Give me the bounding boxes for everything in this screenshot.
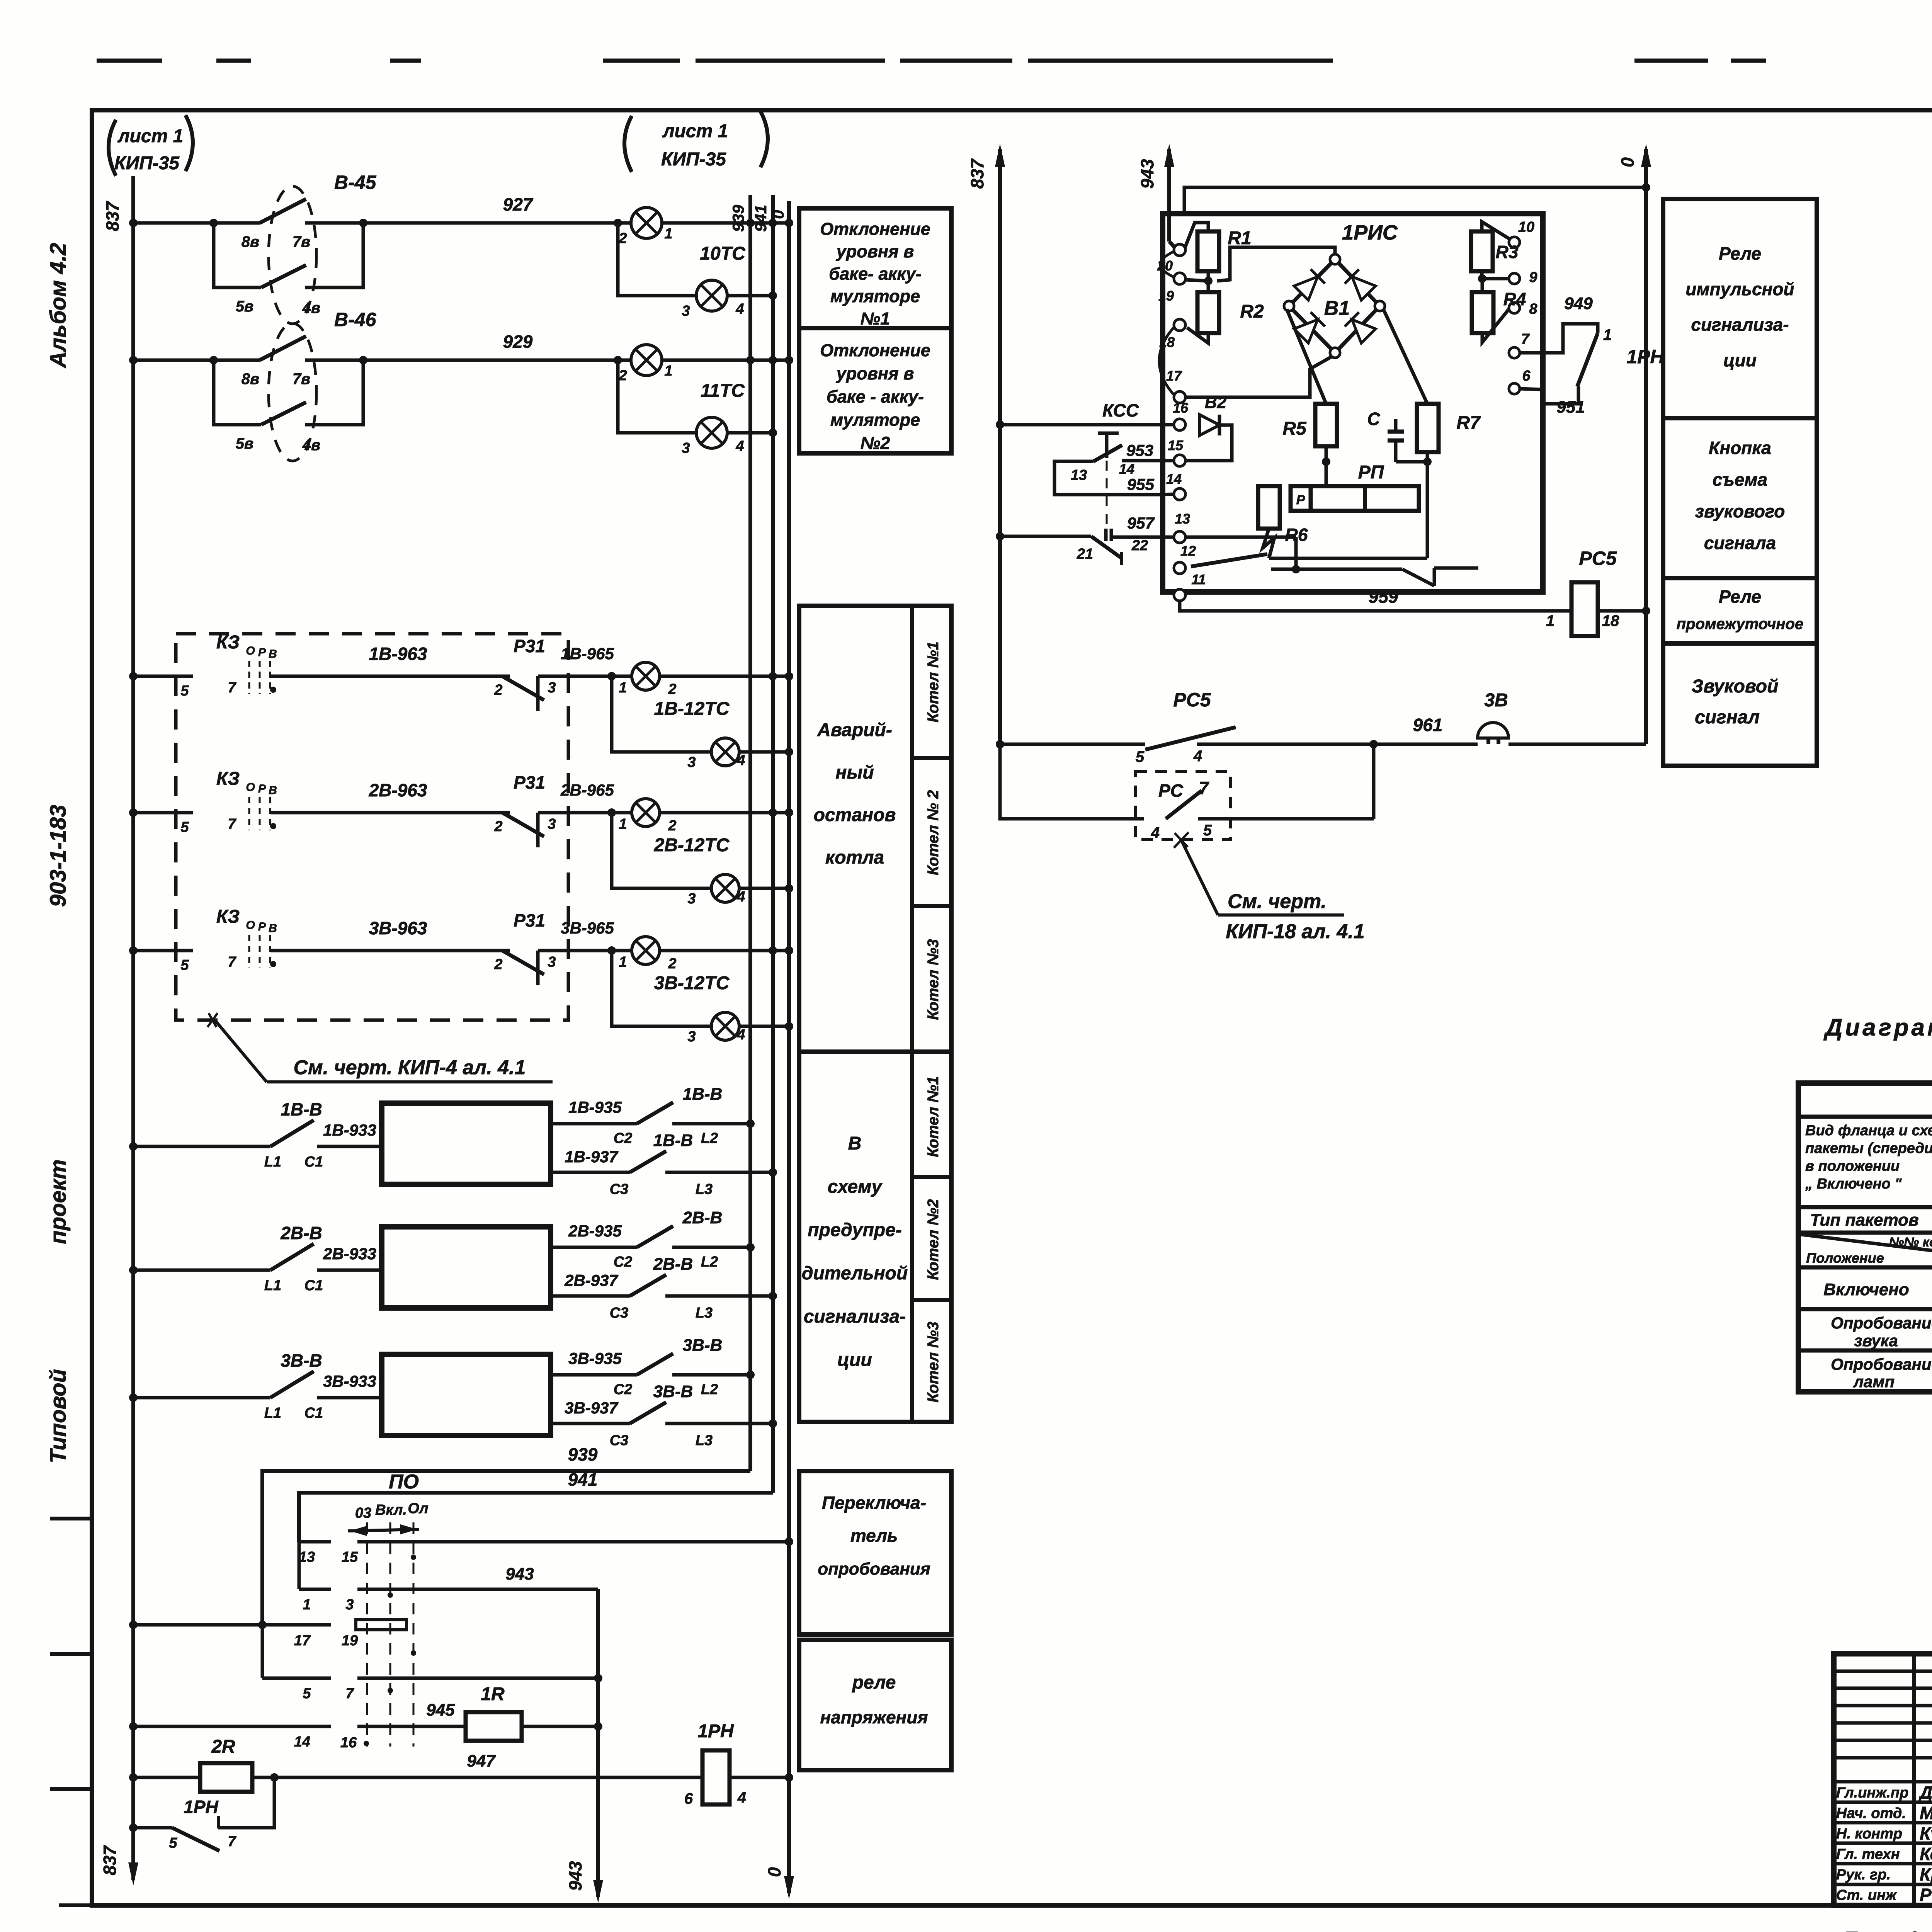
svg-text:Альбом 4.2: Альбом 4.2 — [46, 243, 71, 368]
svg-text:R2: R2 — [1240, 301, 1264, 322]
svg-text:РС5: РС5 — [1173, 689, 1211, 711]
svg-text:2: 2 — [668, 956, 676, 972]
svg-text:„ Включено ": „ Включено " — [1805, 1176, 1902, 1192]
svg-text:См. черт.: См. черт. — [1228, 890, 1327, 913]
svg-text:3: 3 — [682, 303, 690, 319]
relay coil 1РН — [684, 1721, 793, 1807]
svg-text:Вкл.: Вкл. — [375, 1502, 407, 1518]
svg-text:С3: С3 — [610, 1181, 629, 1197]
svg-text:В: В — [269, 922, 277, 935]
svg-text:импульсной: импульсной — [1685, 279, 1794, 299]
resistor R3 — [1471, 222, 1519, 279]
svg-text:3В-933: 3В-933 — [323, 1372, 376, 1390]
pin 8 — [1509, 301, 1537, 317]
svg-text:1: 1 — [619, 954, 627, 970]
svg-text:С2: С2 — [614, 1381, 633, 1398]
svg-text:3В-12ТС: 3В-12ТС — [654, 973, 730, 993]
contact 1РН bottom left — [129, 1777, 274, 1851]
wire 941 horizontal — [299, 1469, 773, 1542]
svg-text:в положении: в положении — [1805, 1158, 1900, 1174]
svg-text:С3: С3 — [610, 1432, 629, 1449]
svg-text:5: 5 — [180, 683, 189, 699]
bus 0 left lower with arrow — [764, 1777, 794, 1899]
svg-text:Р31: Р31 — [514, 910, 545, 930]
svg-text:лист 1: лист 1 — [662, 121, 728, 141]
svg-text:останов: останов — [814, 805, 896, 825]
svg-text:22: 22 — [1131, 537, 1148, 554]
contact КЗ 3В — [216, 906, 277, 970]
svg-text:Тип пакетов: Тип пакетов — [1810, 1211, 1918, 1230]
svg-text:5в: 5в — [236, 298, 253, 315]
svg-text:Н. контр: Н. контр — [1836, 1826, 1902, 1842]
row Опробование ламп — [1831, 1354, 1932, 1391]
dashed group box КЗ circuits — [176, 634, 568, 1020]
right legend column — [1663, 199, 1817, 766]
lamp 3В-12ТС bottom — [612, 951, 793, 1045]
svg-text:1РН: 1РН — [697, 1721, 734, 1742]
svg-text:котла: котла — [825, 847, 884, 868]
pin 7 — [1509, 331, 1530, 358]
svg-text:939: 939 — [568, 1444, 598, 1464]
svg-text:Пров. Федорова: Пров. Федорова — [1843, 1928, 1932, 1932]
svg-text:903-1-183: 903-1-183 — [46, 805, 71, 907]
resistor R7 — [1417, 404, 1481, 558]
wire 1В-937 lower output — [551, 1131, 777, 1197]
svg-text:13: 13 — [299, 1549, 315, 1565]
svg-text:15: 15 — [1168, 437, 1184, 453]
pin jumpers left — [1159, 251, 1175, 396]
svg-text:3: 3 — [687, 1029, 696, 1045]
svg-text:1В-12ТС: 1В-12ТС — [654, 699, 730, 719]
note См. черт. КИП-4 — [207, 1013, 553, 1082]
svg-text:1РН: 1РН — [184, 1797, 218, 1817]
svg-text:Думан: Думан — [1918, 1782, 1932, 1803]
switch В-46 — [214, 309, 377, 461]
svg-text:Опробование: Опробование — [1831, 1355, 1932, 1373]
lamp 1В-12ТС bottom — [612, 676, 793, 770]
wire 927 row — [129, 194, 793, 227]
svg-text:С2: С2 — [614, 1254, 633, 1270]
svg-text:11: 11 — [1191, 571, 1206, 587]
switch ПО contact 5-7 — [262, 1625, 602, 1702]
reference label лист 1 КИП-35 left — [109, 115, 193, 176]
contact РЗ1 3В — [494, 910, 632, 985]
svg-text:R5: R5 — [1282, 418, 1307, 439]
svg-text:схему: схему — [828, 1177, 883, 1197]
svg-text:Кушель: Кушель — [1920, 1823, 1932, 1844]
svg-text:Котел №2: Котел №2 — [925, 1199, 942, 1280]
contact 1В-В input — [129, 1099, 382, 1170]
note См. черт. КИП-18 — [1174, 832, 1365, 943]
svg-text:3В-963: 3В-963 — [369, 918, 427, 938]
lamp 10ТС top — [618, 207, 746, 264]
bus 0 left — [769, 201, 789, 1777]
svg-text:16: 16 — [1173, 400, 1189, 416]
svg-text:4: 4 — [736, 889, 745, 905]
svg-text:Гл.инж.пр: Гл.инж.пр — [1836, 1785, 1908, 1801]
svg-text:звукового: звукового — [1695, 501, 1785, 521]
device block 1РИС — [1163, 214, 1543, 592]
svg-text:17: 17 — [1166, 368, 1182, 384]
svg-text:2: 2 — [494, 682, 502, 698]
svg-text:Нач. отд.: Нач. отд. — [1836, 1805, 1906, 1821]
svg-text:955: 955 — [1127, 475, 1155, 493]
switch ПО contact 1-3 — [299, 1542, 598, 1613]
svg-text:L3: L3 — [696, 1181, 713, 1197]
resistor R6 — [1258, 486, 1308, 558]
switch ПО contact 13-15 — [299, 1537, 793, 1565]
switch ПО closed position dots — [364, 1554, 416, 1746]
svg-text:Котел №1: Котел №1 — [925, 1076, 942, 1157]
svg-text:14: 14 — [294, 1734, 310, 1750]
bus 837 right — [967, 144, 1005, 744]
svg-text:3В-965: 3В-965 — [561, 919, 614, 937]
svg-text:5: 5 — [180, 819, 189, 835]
svg-text:Котел №3: Котел №3 — [925, 1321, 942, 1402]
svg-text:Диаграмма работы переключате: Диаграмма работы переключателя опробован… — [1823, 1014, 1932, 1041]
svg-text:4: 4 — [735, 301, 744, 317]
wire top to bus 0 — [1184, 183, 1650, 214]
svg-text:1В-963: 1В-963 — [369, 644, 427, 664]
bus 837 left — [100, 176, 138, 1886]
svg-text:6: 6 — [1522, 368, 1531, 384]
svg-text:№№ контактов: №№ контактов — [1889, 1235, 1932, 1250]
svg-text:957: 957 — [1127, 514, 1155, 532]
lamp 11ТС top — [618, 345, 745, 401]
svg-text:19: 19 — [1158, 288, 1174, 304]
svg-text:С: С — [1367, 409, 1380, 429]
svg-text:3: 3 — [548, 680, 556, 696]
svg-text:Котел №1: Котел №1 — [925, 641, 942, 722]
svg-text:3В-937: 3В-937 — [565, 1399, 618, 1417]
contact КЗ 1В — [216, 632, 277, 696]
svg-text:Опробование: Опробование — [1831, 1314, 1932, 1332]
resistor R1 — [1185, 223, 1252, 281]
svg-text:16: 16 — [340, 1735, 357, 1751]
contact 2В-В input — [129, 1223, 382, 1294]
relay coil РС5 — [1546, 548, 1650, 636]
wire 3В-963 row — [129, 918, 510, 973]
svg-text:4: 4 — [735, 438, 744, 454]
svg-text:2В-В: 2В-В — [653, 1255, 693, 1274]
svg-text:3В: 3В — [1484, 690, 1508, 711]
signature names — [1836, 1782, 1932, 1905]
svg-text:3В-В: 3В-В — [653, 1382, 693, 1401]
svg-text:В1: В1 — [1324, 297, 1350, 320]
legend text Отклонение уровня №1 — [820, 219, 930, 328]
svg-text:7: 7 — [1521, 331, 1530, 347]
footer below frame — [1843, 1924, 1932, 1932]
svg-text:тель: тель — [850, 1526, 898, 1546]
svg-text:13: 13 — [1175, 511, 1190, 527]
bus 0 right — [1617, 144, 1651, 744]
wire bridge right to R7 — [1383, 309, 1427, 404]
svg-text:опробования: опробования — [818, 1560, 930, 1578]
svg-text:2В-В: 2В-В — [280, 1223, 322, 1243]
svg-text:Ол: Ол — [408, 1500, 428, 1517]
svg-text:953: 953 — [1126, 441, 1153, 459]
legend text Отклонение уровня №2 — [820, 340, 930, 453]
pin 9 — [1509, 269, 1537, 286]
svg-text:С2: С2 — [614, 1130, 633, 1146]
capacitor C — [1367, 409, 1427, 462]
svg-text:3: 3 — [687, 754, 696, 770]
svg-text:КИП-35: КИП-35 — [661, 149, 726, 170]
svg-text:19: 19 — [342, 1633, 358, 1649]
legend rotated Котел №1..3 lower — [925, 1076, 942, 1402]
button КСС — [996, 400, 1174, 529]
legend text Аварийный останов котла — [814, 720, 896, 868]
svg-text:КСС: КСС — [1102, 400, 1139, 420]
svg-text:предупре-: предупре- — [808, 1220, 902, 1240]
svg-text:2: 2 — [618, 367, 627, 384]
svg-text:О: О — [246, 645, 255, 657]
svg-text:Мейман: Мейман — [1920, 1803, 1932, 1823]
svg-text:7в: 7в — [293, 233, 310, 250]
svg-text:№1: №1 — [861, 309, 890, 328]
svg-text:Кнопка: Кнопка — [1709, 438, 1771, 458]
contact РЗ1 2В — [494, 772, 632, 847]
wire 3В-937 lower output — [551, 1382, 777, 1449]
svg-text:Р: Р — [258, 920, 266, 933]
svg-text:8в: 8в — [241, 233, 259, 250]
svg-text:1В-В: 1В-В — [281, 1099, 322, 1119]
bus 943 left with arrow — [565, 1589, 603, 1903]
svg-text:0: 0 — [764, 1867, 784, 1877]
svg-text:4: 4 — [737, 1789, 746, 1806]
torn paper edge dashes top — [97, 59, 1932, 63]
svg-text:4: 4 — [1193, 748, 1202, 765]
svg-text:Котел № 2: Котел № 2 — [925, 790, 942, 875]
svg-text:2В-965: 2В-965 — [560, 781, 614, 799]
svg-text:943: 943 — [1137, 159, 1157, 189]
svg-text:Звуковой: Звуковой — [1692, 676, 1779, 697]
contact КЗ 2В — [216, 769, 277, 832]
bus 939 — [729, 195, 750, 1471]
svg-text:РП: РП — [1358, 462, 1384, 483]
svg-text:Р31: Р31 — [514, 772, 545, 793]
svg-text:2В-12ТС: 2В-12ТС — [654, 835, 730, 855]
svg-text:лист 1: лист 1 — [117, 126, 184, 146]
svg-text:R1: R1 — [1228, 228, 1251, 248]
svg-text:1В-В: 1В-В — [683, 1085, 723, 1104]
svg-text:1РН: 1РН — [1626, 346, 1664, 367]
svg-text:0: 0 — [769, 210, 787, 219]
svg-text:пакеты (спереди): пакеты (спереди) — [1805, 1140, 1932, 1156]
svg-text:L2: L2 — [701, 1130, 718, 1146]
svg-text:L1: L1 — [264, 1277, 281, 1294]
svg-text:С1: С1 — [304, 1277, 323, 1294]
functional block 3В-В — [382, 1354, 551, 1435]
svg-text:РС5: РС5 — [1579, 548, 1617, 569]
svg-text:В-46: В-46 — [334, 309, 377, 330]
svg-text:945: 945 — [426, 1701, 455, 1719]
svg-text:Рук. гр.: Рук. гр. — [1836, 1867, 1891, 1883]
relay РП — [1291, 462, 1419, 511]
wire pin17 to bridge bottom — [1185, 356, 1332, 397]
legend text Кнопка съема звукового сигнала — [1695, 438, 1785, 553]
svg-text:7в: 7в — [293, 371, 310, 388]
svg-text:ПО: ПО — [389, 1471, 419, 1493]
svg-text:1В-937: 1В-937 — [565, 1148, 618, 1166]
svg-text:Гл. техн: Гл. техн — [1836, 1846, 1900, 1862]
svg-text:1РИС: 1РИС — [1342, 221, 1398, 244]
svg-text:03: 03 — [355, 1505, 371, 1521]
svg-text:4: 4 — [736, 752, 745, 769]
switch В-45 — [214, 172, 377, 324]
svg-text:КЗ: КЗ — [216, 632, 240, 653]
svg-text:3В-935: 3В-935 — [568, 1349, 622, 1367]
svg-text:1: 1 — [303, 1597, 311, 1613]
svg-text:947: 947 — [467, 1752, 496, 1770]
svg-text:951: 951 — [1556, 398, 1585, 417]
legend text Реле импульсной сигнализации — [1685, 243, 1794, 370]
svg-text:4: 4 — [1151, 824, 1160, 841]
svg-text:2: 2 — [668, 818, 676, 834]
pin 10 — [1509, 219, 1534, 248]
resistor R5 — [1282, 404, 1337, 486]
svg-text:14: 14 — [1166, 471, 1182, 487]
wire 1В-963 row — [129, 644, 510, 699]
svg-text:сигнал: сигнал — [1695, 707, 1760, 728]
svg-text:1: 1 — [1546, 612, 1554, 629]
svg-text:939: 939 — [729, 204, 747, 232]
resistor R4 — [1472, 274, 1526, 342]
margin text Типовой проект 903-1-183 Альбом 4.2 — [46, 243, 71, 1463]
svg-text:ции: ции — [837, 1350, 872, 1370]
svg-text:6: 6 — [684, 1790, 693, 1807]
bus 943 right — [1137, 144, 1175, 248]
svg-text:В: В — [269, 784, 277, 797]
svg-text:941: 941 — [752, 205, 770, 232]
svg-text:1: 1 — [619, 680, 627, 696]
svg-text:уровня в: уровня в — [836, 364, 914, 383]
svg-text:4: 4 — [736, 1027, 745, 1043]
svg-text:Р: Р — [258, 646, 266, 659]
svg-text:7: 7 — [228, 816, 236, 832]
functional block 1В-В — [382, 1103, 551, 1184]
signature table grid — [1834, 1654, 1932, 1905]
svg-text:Аварий-: Аварий- — [817, 720, 892, 740]
svg-text:1: 1 — [1603, 327, 1612, 344]
wire 2В-937 lower output — [551, 1255, 777, 1321]
contact РЗ1 1В — [494, 636, 632, 711]
wire 2В-935 upper output — [551, 1208, 755, 1270]
legend text Звуковой сигнал — [1692, 676, 1779, 728]
svg-text:927: 927 — [503, 194, 534, 214]
resistor R2 — [1185, 277, 1264, 343]
svg-text:сигнала: сигнала — [1704, 533, 1776, 553]
svg-text:18: 18 — [1602, 612, 1619, 629]
svg-text:Типовой: Типовой — [46, 1369, 71, 1463]
svg-text:2: 2 — [618, 230, 627, 247]
svg-text:961: 961 — [1413, 715, 1443, 735]
button contact 13-14 bracket — [1054, 441, 1174, 495]
lamp 2В-12ТС top — [619, 799, 793, 855]
svg-text:3: 3 — [682, 440, 690, 456]
left fold marks — [50, 1519, 92, 1789]
svg-text:1В-965: 1В-965 — [561, 645, 614, 663]
contact 3В-В input — [129, 1350, 382, 1421]
bus 941 — [752, 195, 773, 1493]
svg-text:баке- акку-: баке- акку- — [829, 264, 921, 284]
svg-text:1В-В: 1В-В — [653, 1131, 693, 1150]
switch ПО contact 14-16 + resistor 1R — [129, 1684, 602, 1770]
contact pin12 row — [1191, 554, 1478, 586]
svg-text:сигнализа-: сигнализа- — [1691, 315, 1789, 335]
lamp 10ТС bottom — [618, 223, 777, 319]
svg-text:949: 949 — [1564, 294, 1593, 313]
svg-text:В: В — [269, 648, 277, 660]
svg-text:Переключа-: Переключа- — [822, 1493, 926, 1513]
svg-text:уровня в: уровня в — [836, 241, 914, 261]
svg-text:2: 2 — [494, 818, 502, 835]
svg-text:Руттасе: Руттасе — [1920, 1885, 1932, 1905]
diode В2 — [1185, 393, 1232, 461]
svg-text:10: 10 — [1518, 219, 1534, 235]
svg-text:21: 21 — [1077, 546, 1093, 562]
svg-text:14: 14 — [1119, 461, 1134, 477]
title block frame — [1834, 1654, 1932, 1905]
diagram title — [1823, 1014, 1932, 1077]
svg-text:Реле: Реле — [1719, 243, 1761, 264]
svg-text:РС: РС — [1158, 781, 1184, 801]
legend text Реле промежуточное — [1677, 587, 1803, 633]
svg-text:муляторе: муляторе — [830, 286, 920, 306]
junction branch dot 3В row — [607, 946, 616, 955]
svg-text:12: 12 — [1180, 543, 1196, 559]
svg-text:КЗ: КЗ — [216, 906, 240, 927]
svg-text:5: 5 — [180, 957, 189, 973]
svg-text:См. черт. КИП-4 ал. 4.1: См. черт. КИП-4 ал. 4.1 — [294, 1056, 526, 1079]
svg-text:8: 8 — [1529, 301, 1537, 317]
svg-text:10ТС: 10ТС — [700, 243, 746, 264]
svg-text:1R: 1R — [481, 1684, 505, 1704]
svg-text:ный: ный — [835, 762, 874, 783]
contact РС5 with wire 961 — [996, 689, 1478, 765]
row Опробование звука — [1831, 1313, 1932, 1350]
svg-text:9: 9 — [1529, 269, 1537, 286]
svg-text:1: 1 — [664, 363, 672, 379]
svg-text:1: 1 — [664, 226, 672, 242]
svg-text:959: 959 — [1369, 587, 1398, 607]
svg-text:Р: Р — [1296, 493, 1305, 507]
svg-text:Ст. инж: Ст. инж — [1836, 1887, 1897, 1903]
svg-text:L3: L3 — [696, 1432, 713, 1449]
svg-text:4в: 4в — [302, 437, 320, 454]
wire 1В-935 upper output — [551, 1085, 755, 1146]
svg-text:11ТС: 11ТС — [701, 381, 745, 401]
svg-text:941: 941 — [568, 1469, 598, 1490]
pins of 1РИС — [1157, 244, 1206, 601]
legend text В схему предупредительной сигнализации — [802, 1133, 908, 1370]
svg-text:баке - акку-: баке - акку- — [827, 387, 924, 406]
svg-text:5: 5 — [169, 1835, 177, 1851]
lamp 11ТС bottom — [618, 360, 777, 456]
svg-text:4в: 4в — [302, 299, 320, 316]
svg-text:промежуточное: промежуточное — [1677, 616, 1803, 633]
pin 6 — [1509, 368, 1531, 394]
switch ПО label — [389, 1471, 419, 1493]
svg-text:15: 15 — [342, 1549, 358, 1565]
lamp 3В-12ТС top — [619, 937, 793, 993]
row Тип пакетов — [1810, 1209, 1932, 1230]
reference label лист 1 КИП-35 right — [624, 111, 768, 172]
svg-text:7: 7 — [1199, 778, 1209, 798]
svg-text:929: 929 — [503, 332, 533, 352]
svg-text:2: 2 — [668, 681, 676, 697]
junction branch dot 2В row — [607, 808, 616, 817]
